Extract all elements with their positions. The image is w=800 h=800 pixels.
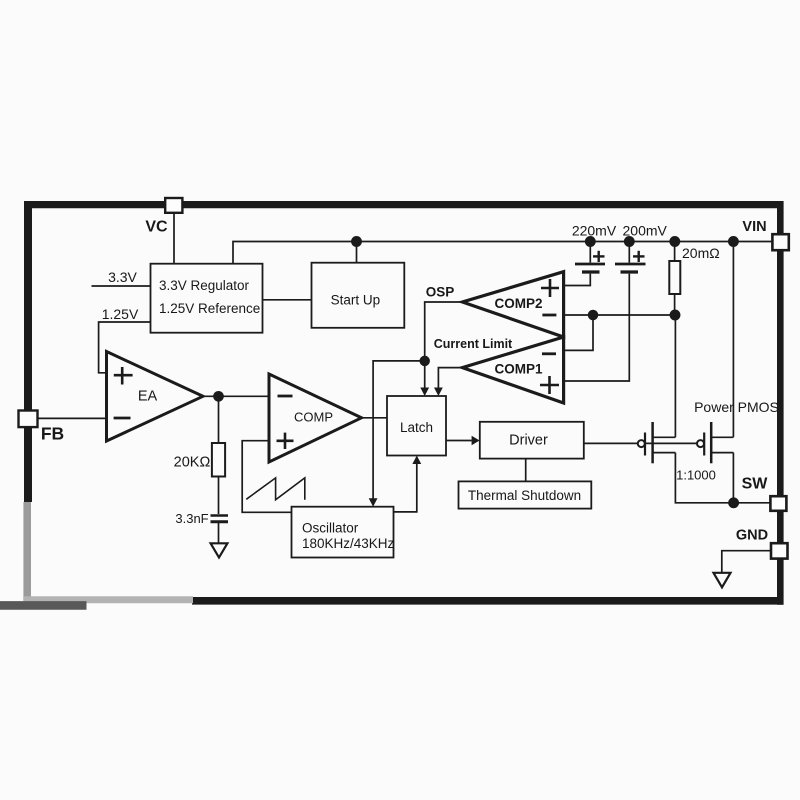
wire SW node to pad bbox=[734, 502, 771, 504]
pad GND bbox=[771, 543, 788, 558]
IC boundary left border (grey lower) bbox=[23, 502, 31, 601]
pad SW bbox=[770, 496, 786, 511]
wire GND pad to ground symbol bbox=[722, 551, 771, 573]
pad VC bbox=[165, 198, 182, 213]
IC boundary top border bbox=[24, 201, 784, 208]
pad VIN bbox=[772, 234, 788, 250]
svg-text:COMP1: COMP1 bbox=[494, 362, 543, 377]
svg-text:VC: VC bbox=[145, 219, 168, 236]
svg-text:3.3V: 3.3V bbox=[108, 269, 137, 285]
wire regulator to Start Up bbox=[263, 299, 312, 301]
node rail junction above Start Up bbox=[352, 237, 361, 246]
IC boundary bottom border (black) bbox=[192, 597, 784, 605]
block Start Up bbox=[312, 263, 405, 328]
svg-text:1.25V Reference: 1.25V Reference bbox=[159, 301, 260, 316]
block Oscillator 180KHz/43KHz bbox=[292, 507, 395, 558]
wire COMP output to latch bbox=[362, 417, 388, 419]
source 220mV reference bbox=[572, 223, 617, 273]
svg-text:Current Limit: Current Limit bbox=[434, 337, 513, 351]
svg-text:COMP2: COMP2 bbox=[494, 296, 542, 311]
comparator COMP2 (over-voltage, points left) bbox=[462, 272, 563, 337]
ground (GND pin) bbox=[714, 573, 731, 588]
wire driver output to PMOS gates bbox=[584, 442, 704, 444]
svg-text:Driver: Driver bbox=[509, 432, 548, 448]
svg-text:200mV: 200mV bbox=[623, 223, 668, 239]
wire latch output to driver (arrow right) bbox=[446, 440, 472, 442]
node EA output junction bbox=[214, 392, 223, 401]
ground (below 3.3nF) bbox=[211, 543, 228, 557]
wire 220mV to COMP2 non-inverting input bbox=[564, 274, 591, 286]
wire COMP1 output to latch (arrow down) bbox=[434, 368, 462, 396]
wire sense node to COMP2 inverting input bbox=[564, 314, 676, 316]
sawtooth ramp symbol bbox=[246, 478, 304, 500]
wire VIN rail (top supply rail y=241.5) bbox=[233, 242, 772, 264]
node junction on OSP line bbox=[420, 357, 429, 366]
wire power PMOS drain to SW node bbox=[732, 453, 734, 503]
capacitor 3.3nF C1 bbox=[175, 511, 228, 526]
transistor Q2 power PMOS bbox=[697, 422, 733, 463]
svg-text:1.25V: 1.25V bbox=[102, 306, 139, 322]
node OSP / wire COMP2 output to latch (arrow down) bbox=[420, 285, 462, 397]
node sense junction branch bbox=[589, 311, 598, 320]
comparator COMP (PWM comparator) bbox=[269, 374, 362, 462]
svg-text:EA: EA bbox=[138, 389, 158, 405]
svg-text:GND: GND bbox=[736, 528, 768, 544]
wire EA output to COMP inverting input bbox=[203, 395, 269, 397]
svg-text:220mV: 220mV bbox=[572, 223, 617, 239]
wire OSP branch to oscillator (arrow down) bbox=[369, 361, 425, 507]
node rail junction 200mV bbox=[625, 237, 634, 246]
svg-text:Oscillator: Oscillator bbox=[302, 521, 359, 536]
wire COMP non-inverting input to oscillator bbox=[242, 441, 291, 513]
wire 20mOhm to sense node bbox=[674, 294, 676, 315]
IC boundary right border bbox=[777, 201, 784, 605]
node SW junction bbox=[729, 498, 738, 507]
block Thermal Shutdown bbox=[459, 481, 592, 508]
IC boundary left border (black upper) bbox=[24, 201, 32, 502]
svg-text:20KΩ: 20KΩ bbox=[174, 455, 211, 471]
wire sense PMOS drain to SW node bbox=[675, 453, 733, 503]
svg-text:Power PMOS: Power PMOS bbox=[694, 399, 779, 415]
wire FB to EA inverting input bbox=[38, 417, 107, 419]
wire Start Up top stub bbox=[356, 242, 358, 263]
comparator COMP1 (current limit, points left) bbox=[462, 337, 563, 403]
resistor 20mOhm sense bbox=[669, 242, 719, 295]
IC boundary bottom shadow bar (dark grey, runs to image edge) bbox=[0, 601, 87, 610]
wire resistor to capacitor bbox=[218, 477, 220, 515]
svg-text:FB: FB bbox=[41, 424, 64, 444]
svg-text:SW: SW bbox=[742, 476, 769, 493]
wire EA output down to resistor bbox=[218, 396, 220, 443]
block Driver bbox=[480, 422, 584, 459]
wire power PMOS source to rail bbox=[732, 242, 734, 438]
wire driver to thermal shutdown bbox=[525, 459, 527, 482]
resistor 20KOhm R1 bbox=[174, 443, 225, 477]
wire 200mV to COMP1 non-inverting input bbox=[564, 274, 630, 381]
wire branch to COMP1 inverting input bbox=[564, 315, 593, 350]
node rail junction 20mOhm bbox=[670, 237, 679, 246]
node sense junction at 20mOhm bbox=[670, 310, 679, 319]
svg-text:3.3nF: 3.3nF bbox=[175, 511, 208, 526]
transistor Q1 sense PMOS (1:1000) bbox=[638, 422, 676, 463]
node 1.25V reference to EA non-inverting input bbox=[99, 306, 151, 373]
wire VC to regulator bbox=[173, 213, 175, 264]
block 3.3V Regulator / 1.25V Reference U1 bbox=[151, 264, 263, 333]
wire capacitor to ground bbox=[218, 523, 220, 543]
svg-text:180KHz/43KHz: 180KHz/43KHz bbox=[302, 536, 395, 551]
svg-text:Latch: Latch bbox=[400, 420, 433, 435]
svg-text:Thermal Shutdown: Thermal Shutdown bbox=[468, 488, 581, 503]
node rail junction power PMOS source bbox=[729, 237, 738, 246]
source 200mV reference bbox=[615, 223, 668, 273]
svg-text:Start Up: Start Up bbox=[331, 293, 381, 308]
op-amp EA (error amplifier) bbox=[107, 352, 204, 442]
svg-text:1:1000: 1:1000 bbox=[676, 468, 716, 483]
node rail junction 220mV bbox=[586, 237, 595, 246]
node 3.3V output stub bbox=[92, 269, 151, 286]
svg-text:3.3V Regulator: 3.3V Regulator bbox=[159, 278, 250, 293]
svg-text:COMP: COMP bbox=[294, 410, 333, 425]
svg-text:VIN: VIN bbox=[742, 219, 766, 235]
wire sense node down to sense PMOS source bbox=[674, 315, 676, 437]
svg-text:20mΩ: 20mΩ bbox=[682, 245, 720, 261]
wire oscillator output to latch (arrow up) bbox=[394, 463, 417, 512]
IC boundary bottom border (light grey segment) bbox=[24, 596, 193, 603]
pad FB bbox=[19, 411, 38, 428]
svg-text:OSP: OSP bbox=[426, 285, 455, 300]
block Latch bbox=[387, 396, 446, 456]
